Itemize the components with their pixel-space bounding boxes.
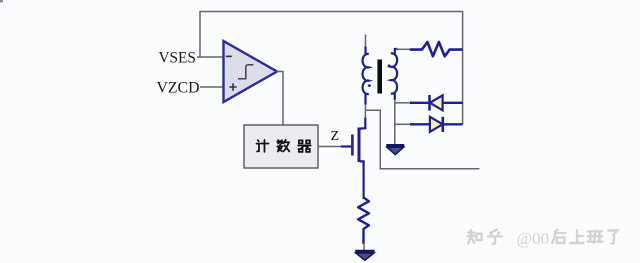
resistor R2 (source) — [358, 198, 369, 245]
wire drain node branch — [365, 110, 479, 168]
wire stub to diode D2 — [395, 123, 411, 125]
watermark Zhihu — [468, 230, 502, 244]
wire comparator output to counter — [277, 72, 284, 126]
counter label 计数器 — [256, 140, 310, 152]
svg-text:@00: @00 — [517, 229, 550, 248]
svg-text:VZCD: VZCD — [157, 80, 200, 97]
svg-text:Z: Z — [331, 129, 340, 144]
diode D2 (cathode right) — [410, 117, 463, 132]
wire counter to gate with Z node — [318, 146, 342, 148]
wire secondary top to resistor — [397, 48, 411, 50]
ground GND1 (secondary) — [386, 145, 404, 154]
wire VZCD lead — [200, 86, 224, 88]
transformer T1 primary winding — [363, 35, 371, 105]
wire to ground GND2 — [363, 243, 365, 251]
op-amp U1 comparator — [224, 41, 278, 102]
wire stub to diode D1 — [395, 102, 411, 104]
transistor Q1 MOSFET — [341, 118, 365, 200]
wire top rail — [200, 12, 463, 125]
transformer T1 secondary winding — [388, 49, 398, 100]
transformer T1 core — [377, 60, 382, 94]
wire VSES lead — [197, 56, 224, 58]
resistor R1 — [410, 42, 463, 56]
wire drain thin segment — [364, 104, 366, 118]
ground GND2 (source) — [355, 251, 374, 260]
diode D1 (cathode left) — [410, 95, 463, 111]
wire secondary bottom down to ground — [394, 99, 396, 145]
counter box U2 — [244, 125, 318, 168]
svg-text:VSES: VSES — [159, 50, 196, 67]
